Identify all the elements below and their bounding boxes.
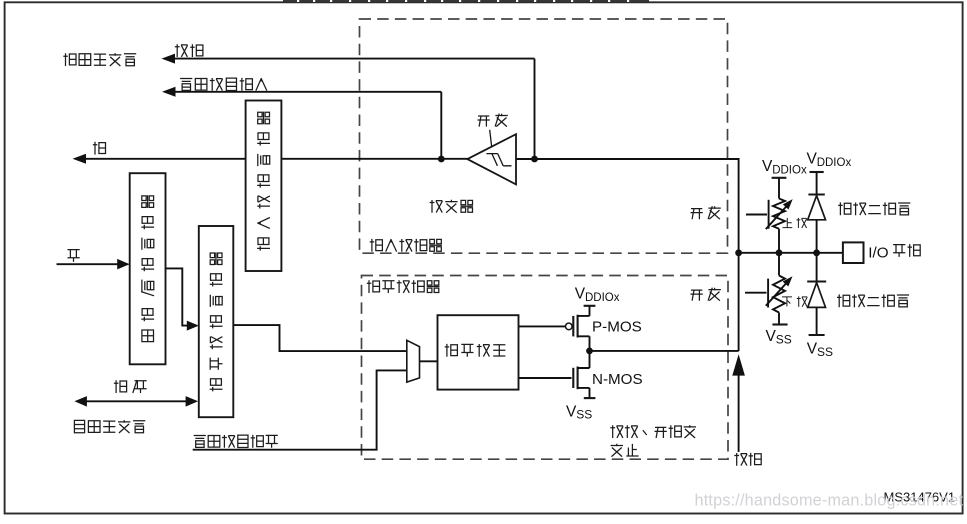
- ground VSS bar (pull-down): [772, 323, 787, 325]
- label VDDIOx (P-MOS): [575, 286, 620, 304]
- register 输入数据寄存器 (input data register): [246, 101, 282, 272]
- label VSS (pull-down): [766, 328, 792, 346]
- node MOS drain junction: [586, 348, 593, 355]
- svg-text:I/O: I/O: [868, 245, 888, 262]
- input driver dashed box 输入驱动器: [360, 19, 728, 253]
- resistor pull-down (variable): [766, 253, 793, 325]
- label 输出驱动器: [367, 280, 440, 293]
- label 推挽、开漏或: [610, 425, 696, 438]
- I/O pin pad square: [843, 242, 864, 263]
- protection diode lower: [807, 253, 826, 335]
- transistor N-MOS: [573, 351, 589, 398]
- label 保护二极管 (upper): [838, 202, 910, 215]
- block 输出控制 (output control): [438, 315, 519, 389]
- label 模拟 (top): [175, 44, 203, 57]
- power VDDIOx bar (upper diode): [810, 171, 824, 173]
- label text 输入数据寄存器 (vertical): [257, 112, 270, 251]
- svg-text:https://handsome-man.blog.csdn: https://handsome-man.blog.csdn.net: [695, 492, 964, 510]
- wire mux to output control: [420, 360, 438, 362]
- wire analog (bottom) with up arrow: [732, 354, 745, 452]
- label 保护二极管 (lower): [837, 294, 909, 307]
- label 输入驱动器: [370, 239, 442, 252]
- node analog junction: [531, 156, 538, 163]
- wire gate P-MOS: [519, 325, 566, 327]
- power VDDIOx bar (P-MOS source): [584, 305, 596, 307]
- resistor pull-up (variable): [766, 178, 793, 253]
- ground VSS bar (N-MOS source): [584, 397, 596, 399]
- register 置位/复位寄存器 (set/reset register): [130, 173, 166, 364]
- wire set/reset reg to output data reg: [166, 268, 199, 330]
- power VDDIOx bar (pull-up): [772, 177, 787, 179]
- wire trigger output to pad column: [516, 159, 739, 351]
- wire MOS drain output: [590, 350, 739, 352]
- node pad column junction: [735, 249, 742, 256]
- svg-text:N-MOS: N-MOS: [592, 371, 643, 388]
- label 读: [93, 142, 106, 155]
- svg-text:SS: SS: [776, 332, 792, 346]
- register 输出数据寄存器 (output data register): [199, 226, 234, 417]
- label 复用功能输入: [180, 78, 267, 91]
- cropped caption text remnant at top: [283, 0, 649, 2]
- label 触发器: [430, 200, 474, 213]
- label 模拟 (bottom): [734, 453, 761, 466]
- wire output data reg to mux: [233, 325, 406, 351]
- label 读/写: [114, 380, 147, 393]
- output driver dashed box 输出驱动器: [362, 276, 729, 460]
- label 引脚: [893, 244, 920, 257]
- node pull junction: [776, 249, 783, 256]
- wire read/write double arrow: [74, 396, 198, 407]
- label VDDIOx (upper diode): [807, 151, 852, 169]
- svg-text:DDIOx: DDIOx: [772, 164, 807, 176]
- svg-text:DDIOx: DDIOx: [817, 157, 852, 169]
- label VSS (lower diode): [807, 341, 833, 359]
- svg-text:P-MOS: P-MOS: [592, 319, 642, 336]
- svg-text:DDIOx: DDIOx: [585, 292, 620, 304]
- wire alternate function input: [162, 87, 441, 159]
- svg-text:SS: SS: [576, 408, 592, 422]
- label 上拉: [782, 218, 806, 228]
- label 复用功能输出: [194, 435, 278, 448]
- wire read: [73, 154, 468, 164]
- label 开/关 (pull-down): [691, 288, 721, 301]
- label 输出控制: [445, 344, 506, 357]
- ground VSS bar (lower diode): [809, 334, 825, 336]
- svg-text:SS: SS: [817, 345, 833, 359]
- switch lever pull-up 开/关: [746, 200, 769, 229]
- label VDDIOx (pull-up): [762, 158, 807, 176]
- protection diode upper: [808, 172, 826, 253]
- transistor P-MOS: [566, 306, 590, 351]
- label VSS (N-MOS): [566, 403, 592, 421]
- node AFI junction: [438, 156, 445, 163]
- label 开/关 (trigger): [478, 114, 508, 127]
- wire write: [57, 259, 130, 270]
- label 开/关 (pull-up): [691, 206, 721, 219]
- wire gate N-MOS: [519, 377, 572, 379]
- schmitt trigger U1: [467, 130, 516, 185]
- wire alternate function output: [193, 370, 407, 449]
- wire analog to peripherals (top): [162, 54, 535, 159]
- label 禁止: [611, 444, 639, 457]
- switch lever pull-down 开/关: [745, 279, 768, 308]
- wire I/O row to pin: [739, 252, 843, 254]
- label text 输出数据寄存器 (vertical): [210, 252, 223, 391]
- label 下拉: [782, 296, 807, 306]
- label 到片上外设: [63, 53, 136, 66]
- label 自片上外设: [74, 420, 145, 433]
- label text 置位/复位寄存器 (vertical): [141, 195, 154, 341]
- multiplexer: [407, 340, 420, 382]
- label 写: [68, 250, 80, 262]
- node diode junction: [813, 249, 820, 256]
